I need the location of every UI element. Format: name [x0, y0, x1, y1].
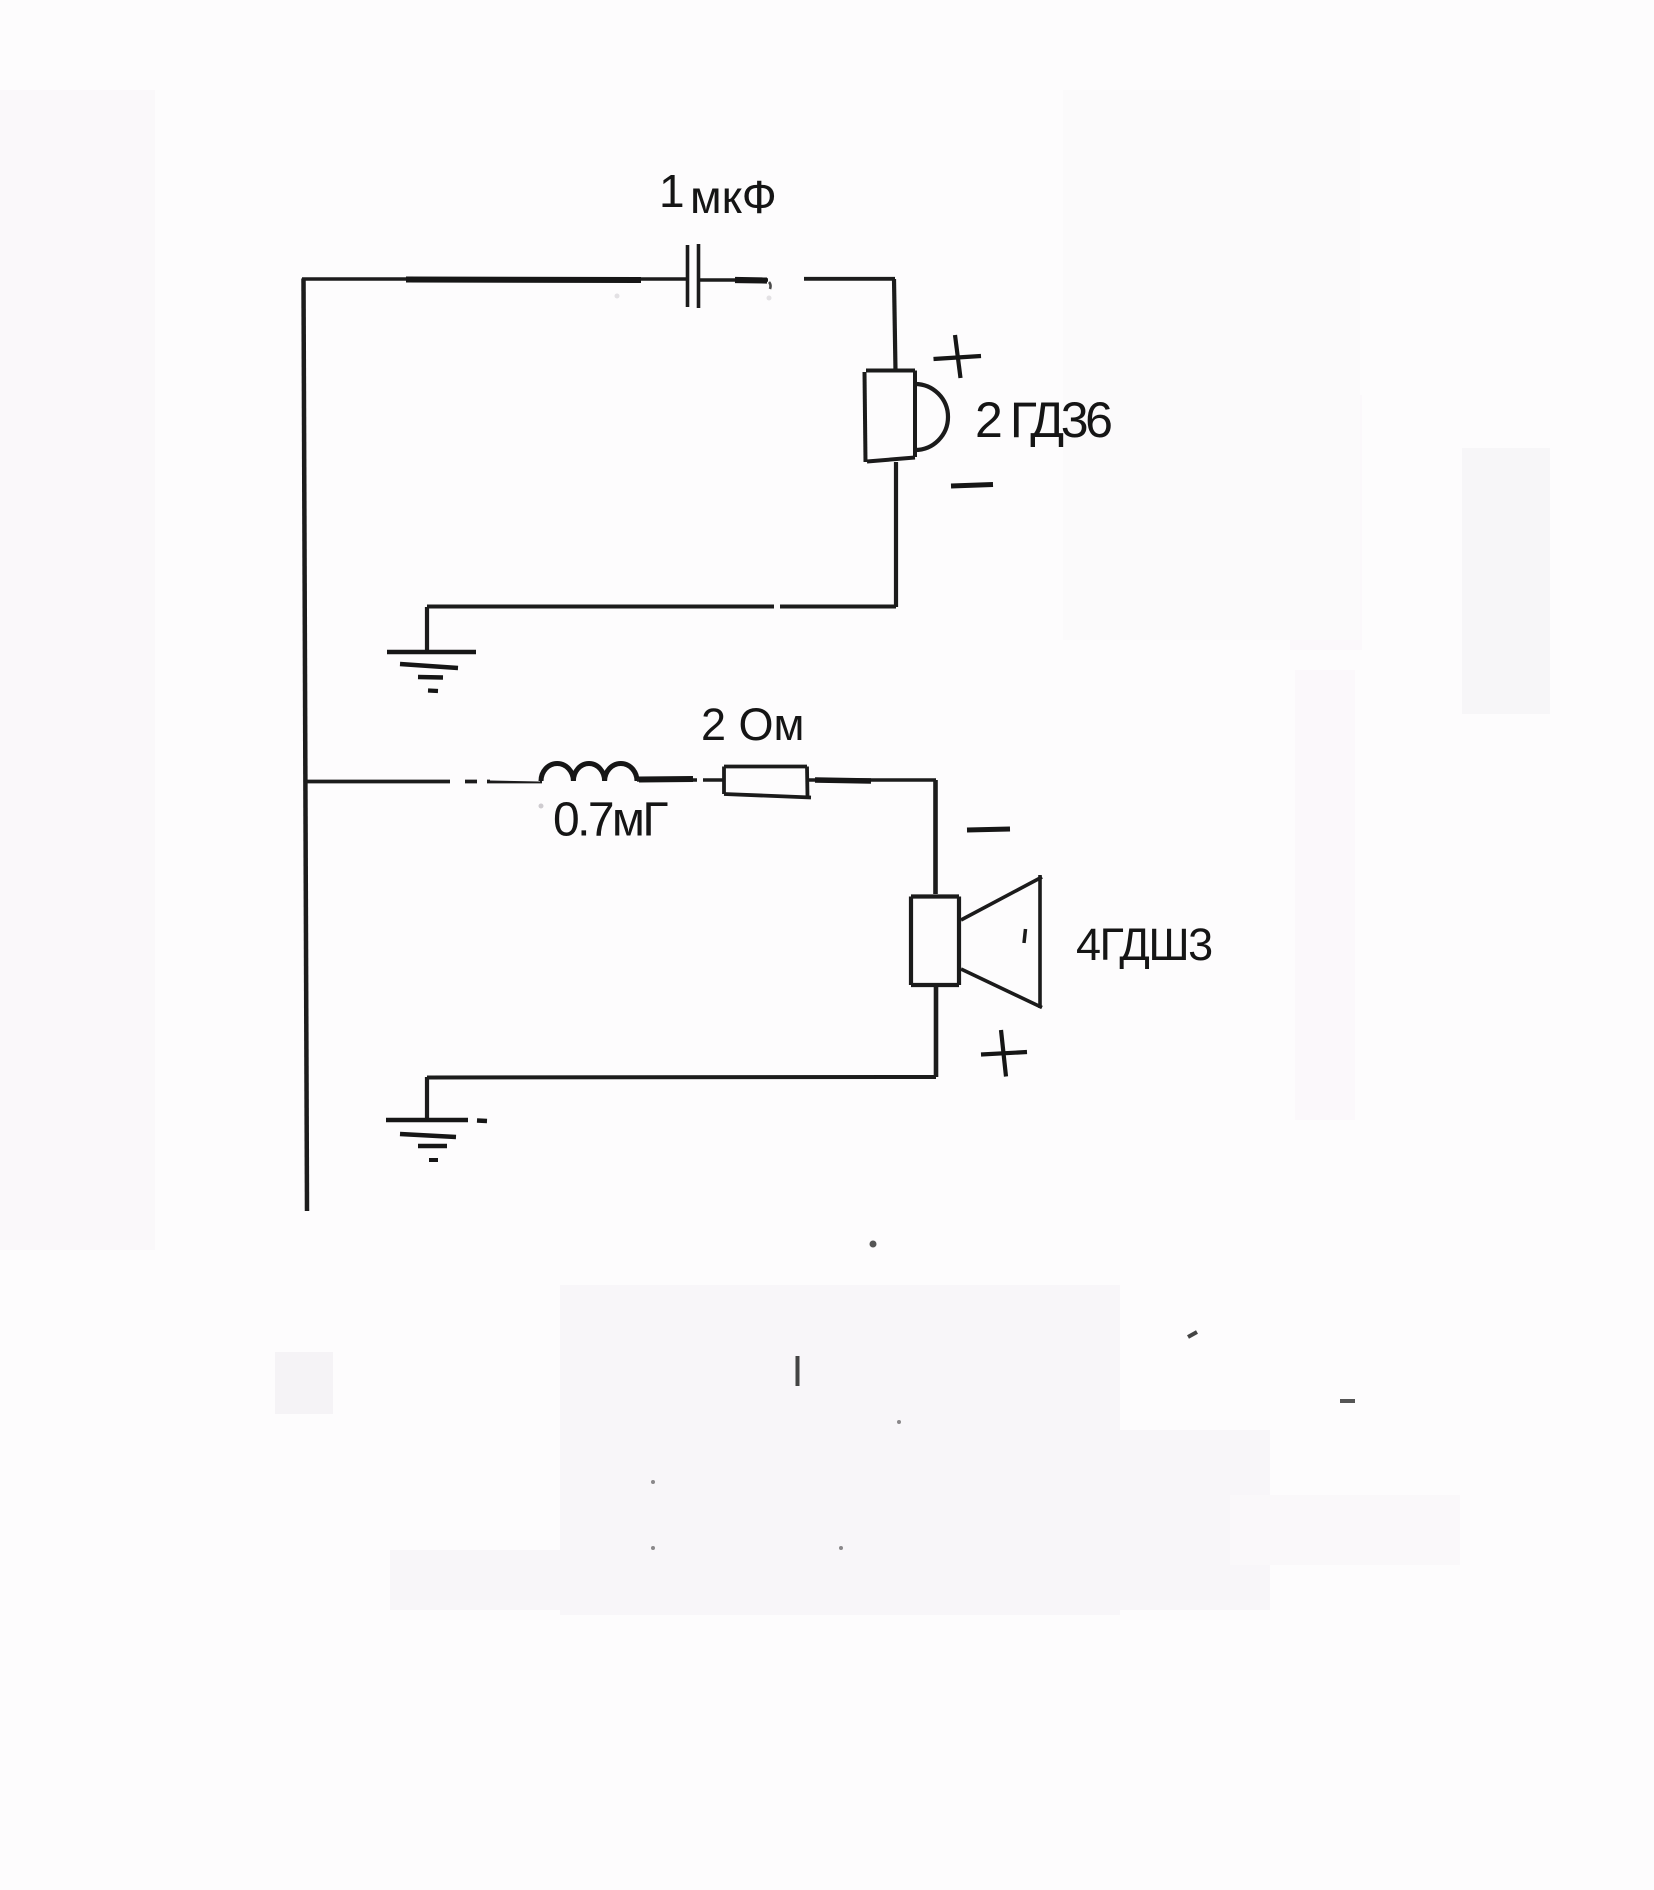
ground GND1 bars [387, 652, 476, 691]
svg-text:2 Ом: 2 Ом [701, 699, 804, 750]
wire: woofer return horizontal to ground node [427, 1075, 936, 1080]
inductor L1 (0.7мГ) [541, 763, 637, 781]
polarity plus (woofer) [981, 1052, 1027, 1055]
wire: left vertical bus [304, 279, 308, 1212]
svg-text:0.7мГ: 0.7мГ [553, 794, 668, 847]
wire: tweeter top lead vertical [894, 279, 896, 371]
svg-text:2 ГД36: 2 ГД36 [975, 392, 1111, 448]
ground GND1 stem [425, 607, 429, 652]
wire: tweeter bottom lead vertical [894, 462, 898, 607]
speaker BA2 (woofer 4ГДШ3) rectangle [911, 897, 959, 986]
capacitor C1 plates [688, 244, 699, 308]
polarity plus (tweeter) [934, 356, 982, 359]
ground GND2 bars [386, 1120, 487, 1160]
polarity minus (woofer) [967, 829, 1010, 830]
speaker BA1 (tweeter 2ГД36) rectangle [865, 371, 916, 463]
wire: woofer bottom lead vertical [934, 985, 939, 1077]
speaker BA2 cone [961, 875, 1042, 1008]
ground GND2 stem [425, 1077, 429, 1120]
svg-text:мкФ: мкФ [690, 171, 777, 223]
svg-text:4ГДШ3: 4ГДШ3 [1076, 919, 1212, 970]
polarity minus (tweeter) [951, 485, 993, 487]
wire: middle horizontal from bus to inductor L1 [305, 780, 542, 784]
wire: woofer top lead vertical [933, 780, 938, 894]
svg-text:1: 1 [659, 165, 685, 217]
resistor R1 (2 Ом) box [724, 767, 811, 798]
wire: inductor L1 to resistor R1 [637, 778, 724, 782]
speaker BA1 dome [915, 384, 948, 450]
small tick inside cone [1024, 929, 1026, 943]
wire: resistor R1 to woofer top corner [808, 778, 936, 782]
wire: capacitor C1 to tweeter top corner [700, 278, 768, 281]
wire: tweeter return horizontal to ground node [427, 605, 896, 609]
wire: top horizontal from bus to capacitor C1 [302, 277, 687, 281]
